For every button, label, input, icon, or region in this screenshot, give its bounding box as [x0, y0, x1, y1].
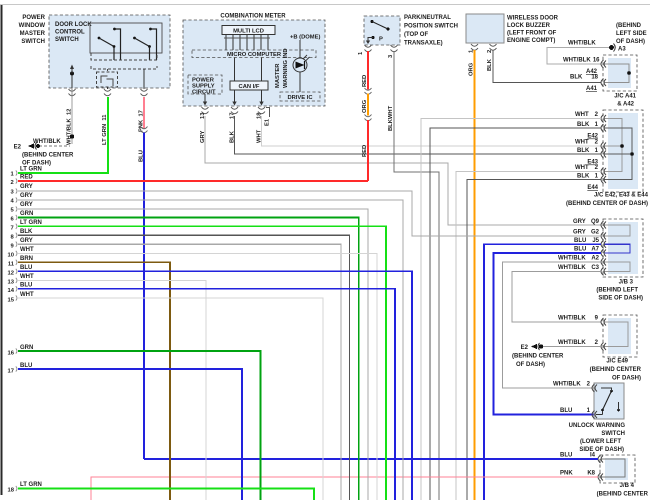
svg-text:K8: K8 [587, 471, 595, 477]
meter pin 13 connector [202, 102, 209, 114]
page border left line [1, 5, 3, 495]
svg-text:CIRCUIT: CIRCUIT [192, 89, 216, 95]
ground lead inside switch (pin 12) [70, 65, 74, 89]
wire WHT/BLK J/B3 C3 to J/C E49 pin9 [512, 271, 601, 322]
svg-text:MICRO COMPUTER: MICRO COMPUTER [227, 52, 282, 58]
wire BLU long vertical from pnk connector to J/B4 row [143, 133, 145, 458]
pin E49-9 connector arc [601, 318, 606, 326]
multi lcd box [222, 26, 275, 35]
svg-text:10: 10 [8, 253, 14, 259]
wire WHT meter pin18 to J/C E43 pin2 [262, 116, 602, 146]
svg-text:DOOR LOCK: DOOR LOCK [55, 22, 92, 28]
svg-text:P: P [379, 37, 383, 43]
svg-text:POSITION SWITCH: POSITION SWITCH [404, 24, 458, 30]
wire w6 GRN row6 to bottom edge [11, 211, 359, 500]
svg-text:GRY: GRY [573, 230, 586, 236]
pin K8 connector arc [598, 473, 603, 481]
svg-text:CONTROL: CONTROL [55, 30, 85, 36]
svg-text:C3: C3 [591, 265, 599, 271]
svg-text:MASTER: MASTER [275, 63, 281, 88]
can i/f box [230, 81, 268, 90]
wire RED segment from park/neutral pin1 [367, 51, 369, 90]
page border top line [0, 4, 650, 6]
labels unlock switch pins [553, 382, 591, 415]
svg-text:MULTI LCD: MULTI LCD [233, 29, 264, 35]
svg-text:& A42: & A42 [617, 102, 634, 108]
pin E43-2 connector arc [601, 142, 606, 150]
svg-text:J/C A41: J/C A41 [614, 94, 636, 100]
svg-text:(BEHIND CENTER: (BEHIND CENTER [22, 153, 74, 159]
svg-text:WHT/BLK: WHT/BLK [563, 58, 591, 64]
svg-text:LT GRN: LT GRN [20, 482, 42, 488]
svg-text:16: 16 [593, 58, 600, 64]
svg-text:RED: RED [20, 175, 33, 181]
wire RED down to row2 [367, 120, 369, 181]
svg-text:(LEFT FRONT OF: (LEFT FRONT OF [507, 31, 557, 37]
rotated label 17 BLK [230, 113, 236, 143]
svg-text:DRIVE IC: DRIVE IC [287, 95, 313, 101]
wire w15 WHT row15 to bottom edge [8, 292, 323, 500]
pin A41-18 connector arc [601, 79, 606, 87]
switch pin 17 connector [141, 69, 148, 96]
pin E44-1 connector arc [601, 176, 606, 184]
svg-text:SWITCH: SWITCH [55, 37, 79, 43]
svg-text:LT GRN 11: LT GRN 11 [102, 114, 108, 145]
connector pair on red/org wire [365, 88, 372, 94]
svg-text:GRN: GRN [20, 211, 33, 217]
wire WHT/BLK J/B3 A2 to unlock warning switch pin2 [503, 262, 602, 388]
svg-text:RED: RED [362, 75, 368, 87]
wire w2 RED row2 to park/neutral [11, 175, 369, 187]
wire BLU long horizontal to J/B4 I4 [144, 458, 598, 460]
wire micro computer to can i/f pin17 [234, 58, 236, 82]
switch contacts unlock side [133, 28, 156, 60]
svg-text:LEFT SIDE: LEFT SIDE [616, 31, 647, 37]
pin C3 connector arc [601, 267, 606, 275]
svg-text:18: 18 [591, 75, 598, 81]
svg-text:WHT/BLK: WHT/BLK [558, 256, 586, 262]
labels E42 pins [575, 112, 599, 140]
door lock control switch inner contact box [90, 23, 162, 53]
svg-text:WHT/BLK: WHT/BLK [568, 41, 596, 47]
svg-text:G2: G2 [591, 230, 600, 236]
label WHT/BLK 16 A42 [563, 58, 600, 76]
rotated label 18 WHT [257, 112, 263, 143]
wire w1 LT GRN row1 to switch pin 11 [11, 97, 109, 178]
svg-text:BRN: BRN [20, 256, 33, 262]
svg-text:WIRELESS DOOR: WIRELESS DOOR [507, 16, 559, 22]
wire PNK to J/B4 K8 from bottom edge [91, 477, 598, 500]
svg-text:OF DASH): OF DASH) [612, 376, 641, 382]
drive ic (dashed box) [280, 92, 320, 101]
svg-text:J5: J5 [592, 238, 599, 244]
ground E2 right (behind center of dash) [512, 343, 601, 368]
svg-text:MASTER: MASTER [20, 31, 46, 37]
svg-text:OF DASH): OF DASH) [616, 39, 645, 45]
switch pin 12 connector [69, 88, 76, 97]
unlock switch pin2 connector arc [592, 384, 597, 392]
svg-text:16: 16 [8, 351, 15, 357]
junction connector J/C E49 [590, 315, 642, 382]
pin E42-1 connector arc [601, 124, 606, 132]
svg-text:TRANSAXLE): TRANSAXLE) [404, 41, 443, 47]
combination meter (dashed box) [183, 14, 325, 107]
switch knob actuator symbol [97, 69, 118, 87]
power window master switch label [19, 15, 46, 45]
wire micro computer to can i/f pin18 [261, 58, 263, 82]
svg-text:GRY: GRY [20, 193, 33, 199]
park/neutral position switch (dashed box) [364, 15, 458, 47]
svg-text:LT GRN: LT GRN [20, 220, 42, 226]
wire WHT/BLK from switch pin 12 to E2 ground [33, 97, 74, 145]
wire GRY meter pin13 to J/B3 Q9 [205, 116, 601, 225]
svg-text:ENGINE COMPT): ENGINE COMPT) [507, 38, 555, 44]
svg-text:Q9: Q9 [591, 219, 600, 225]
park/neutral pin 1 connector [365, 41, 372, 52]
svg-text:WHT/BLK: WHT/BLK [553, 382, 581, 388]
ground point A3 (behind left side of dash) [616, 23, 647, 45]
wire w14 BLU row14 to bottom edge [8, 283, 395, 500]
junction block J/B 3 [596, 219, 643, 302]
wire w5 GRY row5 to bottom edge [11, 202, 369, 500]
svg-text:BLU: BLU [20, 265, 32, 271]
svg-text:BLU: BLU [574, 238, 586, 244]
junction connector J/C A41 & A42 [603, 55, 637, 108]
svg-text:WHT/BLK: WHT/BLK [33, 139, 61, 145]
svg-text:BLK: BLK [487, 58, 493, 71]
svg-text:(BEHIND CENTER: (BEHIND CENTER [512, 354, 564, 360]
labels E43 pins [575, 140, 599, 166]
junction block J/B 4 [597, 455, 649, 498]
connector designator E1 [265, 108, 271, 127]
svg-text:SIDE OF DASH): SIDE OF DASH) [598, 296, 643, 302]
svg-text:PARK/NEUTRAL: PARK/NEUTRAL [404, 15, 451, 21]
master warning LED D1 [293, 40, 310, 92]
wire BLK to E42 pin1 from bottom edge [430, 128, 601, 500]
wire ORG segment [367, 94, 369, 116]
master warning ind rotated label [275, 48, 289, 88]
pin E44-2 connector arc [601, 168, 606, 176]
meter pin 17 connector [231, 102, 238, 114]
switch contacts lock side [98, 28, 121, 60]
svg-text:BLU: BLU [560, 453, 572, 459]
svg-text:E2: E2 [521, 345, 529, 351]
wire BLK from buzzer pin2 to J/C A41 pin18 [493, 50, 601, 83]
svg-text:GRY: GRY [20, 238, 33, 244]
svg-text:UNLOCK WARNING: UNLOCK WARNING [569, 423, 626, 429]
svg-text:2: 2 [487, 50, 493, 53]
svg-text:J/B 4: J/B 4 [620, 483, 635, 489]
svg-text:WHT: WHT [575, 112, 589, 118]
svg-text:I4: I4 [590, 453, 596, 459]
svg-text:17: 17 [8, 369, 14, 375]
buzzer pin 2 connector [490, 44, 497, 50]
svg-text:12: 12 [8, 271, 14, 277]
labels J/B4 pins [560, 453, 596, 477]
label BLK 18 A41 [570, 75, 599, 93]
pin A7 connector arc [601, 249, 606, 257]
multi lcd pins [224, 35, 270, 51]
svg-text:GRY: GRY [573, 219, 586, 225]
wire w12 BLU row12 to bottom edge [8, 265, 412, 500]
svg-text:POWER: POWER [22, 15, 45, 21]
wire w13 WHT row13 to bottom edge [8, 274, 206, 500]
labels J/B3 pins [558, 219, 600, 271]
park/neutral pin 3 connector [391, 45, 398, 52]
svg-text:J/B 3: J/B 3 [619, 280, 634, 286]
svg-text:2: 2 [11, 180, 14, 186]
svg-text:15: 15 [8, 298, 15, 304]
svg-text:(BEHIND LEFT: (BEHIND LEFT [596, 288, 638, 294]
wire w4 GRY row4 to bottom edge [11, 193, 404, 500]
wire w8 BLK row8 to bottom edge [11, 229, 350, 500]
svg-text:7: 7 [11, 226, 14, 232]
svg-text:GRN: GRN [20, 345, 33, 351]
pin I4 connector arc [598, 455, 603, 463]
svg-text:(BEHIND: (BEHIND [616, 23, 642, 29]
wire w3 GRY row3 to J/B3 G2 [11, 184, 602, 236]
wire WHT to E42 pin2 from bottom edge [421, 119, 601, 500]
svg-text:GRY: GRY [20, 202, 33, 208]
svg-text:LOCK BUZZER: LOCK BUZZER [507, 23, 551, 29]
svg-text:(BEHIND CENTER OF DASH): (BEHIND CENTER OF DASH) [566, 201, 648, 207]
svg-text:BLU: BLU [574, 247, 586, 253]
micro computer (dashed box) [192, 50, 316, 58]
svg-text:GRY: GRY [20, 184, 33, 190]
svg-text:BLU: BLU [560, 408, 572, 414]
svg-text:(TOP OF: (TOP OF [404, 32, 428, 38]
svg-text:(BEHIND CENTER: (BEHIND CENTER [590, 367, 642, 373]
rotated labels buzzer pins [469, 49, 494, 76]
switch pin 11 connector [104, 87, 111, 96]
svg-text:BLK: BLK [20, 229, 33, 235]
wireless door lock buzzer box [466, 14, 559, 44]
wire WHT/BLK from J/C A42 pin16 up to ground A3 [547, 41, 626, 65]
svg-text:WHT: WHT [575, 140, 589, 146]
svg-text:18: 18 [8, 488, 15, 494]
svg-text:WHT: WHT [20, 292, 34, 298]
svg-text:A2: A2 [591, 256, 599, 262]
svg-text:A41: A41 [586, 86, 598, 92]
left row end ticks [16, 170, 17, 491]
svg-text:WHT/BLK: WHT/BLK [558, 265, 586, 271]
wire BLKWHT from park/neutral pin3 [394, 51, 439, 500]
junction connector J/C E42 E43 E44 [566, 110, 649, 207]
power supply circuit (dashed box) [188, 75, 222, 95]
svg-text:WHT: WHT [575, 165, 589, 171]
svg-text:WHT/BLK: WHT/BLK [558, 340, 586, 346]
svg-text:A7: A7 [591, 247, 599, 253]
unlock switch pin1 connector arc [592, 411, 597, 419]
wire WHT to E44 pin2 from bottom edge [456, 172, 601, 500]
svg-text:BLK: BLK [577, 122, 590, 128]
wire can i/f down to pins [205, 90, 262, 103]
svg-text:J/C E49: J/C E49 [606, 359, 628, 365]
pin G2 connector arc [601, 232, 606, 240]
svg-text:+B (DOME): +B (DOME) [290, 35, 321, 41]
wire w10 WHT row10 to bottom edge [8, 247, 377, 500]
svg-text:BLK: BLK [570, 75, 583, 81]
wire w11 BRN row11 to bottom edge [8, 256, 170, 500]
svg-text:SIDE OF DASH): SIDE OF DASH) [579, 447, 624, 453]
svg-text:COMBINATION METER: COMBINATION METER [220, 14, 286, 20]
pin E42-2 connector arc [601, 115, 606, 123]
svg-text:11: 11 [8, 262, 15, 268]
svg-text:(LOWER LEFT: (LOWER LEFT [580, 439, 621, 445]
svg-text:PNK: PNK [560, 471, 573, 477]
rotated label 13 GRY [200, 112, 206, 143]
meter pin 18 connector [258, 102, 265, 114]
svg-text:ORG: ORG [469, 62, 475, 76]
svg-text:E44: E44 [587, 185, 598, 191]
labels E44 pins [575, 165, 599, 191]
svg-text:BLU: BLU [20, 363, 32, 369]
svg-text:14: 14 [8, 288, 15, 294]
pin E49-2 connector arc [601, 343, 606, 351]
ground E2 left (behind center of dash) [14, 143, 74, 167]
wire BLK to E44 pin1 from bottom edge [467, 180, 601, 500]
svg-text:WHT: WHT [20, 247, 34, 253]
svg-text:ORG: ORG [362, 99, 368, 113]
door lock control switch (dashed box) [49, 15, 170, 88]
svg-text:E2: E2 [14, 145, 22, 151]
wire w16 GRN row16 to bottom edge [8, 345, 261, 500]
svg-text:13: 13 [8, 280, 15, 286]
svg-text:J/C E42, E43 & E44: J/C E42, E43 & E44 [594, 193, 649, 199]
pin A2 connector arc [601, 258, 606, 266]
unlock warning switch [569, 383, 626, 453]
svg-text:OF DASH): OF DASH) [516, 362, 545, 368]
connector pair on org/red wire [365, 115, 372, 121]
wire BLK meter pin17 to J/C E43 pin1 [235, 116, 602, 154]
wire ORG from buzzer pin1 to bottom edge [474, 50, 476, 500]
svg-text:BLK: BLK [577, 174, 590, 180]
svg-text:RED: RED [362, 145, 368, 157]
wire w7 LT GRN row7 to bottom edge [11, 220, 387, 500]
svg-text:BLU: BLU [20, 283, 32, 289]
wire BLU J/B3 A7 to unlock warning switch pin1 [494, 253, 602, 415]
svg-text:A3: A3 [618, 47, 626, 53]
svg-text:E1: E1 [265, 118, 271, 126]
svg-text:(BEHIND CENTER: (BEHIND CENTER [597, 492, 649, 498]
wire w9 GRY row9 to bottom edge [11, 238, 342, 500]
wire w18 LT GRN row18 to bottom edge [8, 482, 314, 500]
svg-text:BLK: BLK [577, 148, 590, 154]
pin A42-16 connector arc [601, 60, 606, 68]
buzzer pin 1 connector [471, 44, 478, 50]
wire PNK from switch pin 17 [141, 97, 148, 133]
svg-text:WINDOW: WINDOW [19, 23, 46, 29]
svg-text:LT GRN: LT GRN [20, 167, 42, 173]
svg-text:WARNING IND: WARNING IND [283, 48, 289, 88]
svg-text:BLKWHT: BLKWHT [388, 105, 394, 131]
svg-text:CAN I/F: CAN I/F [239, 84, 260, 90]
svg-text:SWITCH: SWITCH [21, 39, 45, 45]
svg-text:SWITCH: SWITCH [601, 431, 625, 437]
switch common dashed bracket [91, 53, 157, 69]
pin E43-1 connector arc [601, 150, 606, 158]
labels E49 pins [558, 316, 599, 347]
svg-text:WHT: WHT [20, 274, 34, 280]
pin Q9 connector arc [601, 221, 606, 229]
pin J5 connector arc [601, 240, 606, 248]
wire w17 BLU row17 to bottom edge [8, 363, 242, 500]
svg-text:WHT/BLK: WHT/BLK [558, 316, 586, 322]
wire BLU J/B3 J5 to bottom edge [484, 244, 601, 500]
